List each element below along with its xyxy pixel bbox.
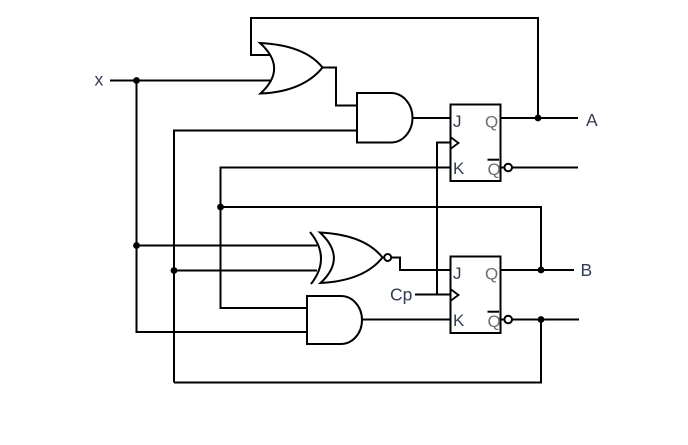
wire: AND1 output to FF1 J (410, 117, 451, 119)
flip-flop U2 Qbar overline (488, 311, 500, 313)
junction Q_B feedback (217, 204, 224, 211)
wire: XNOR output to FF2 J (383, 258, 451, 271)
wire: Q_B feedback horizontal (221, 207, 542, 270)
and-gate G4 (307, 296, 362, 344)
svg-text:J: J (453, 112, 462, 131)
wire: OR output to AND1 top input (321, 68, 357, 106)
svg-text:Q: Q (488, 312, 501, 331)
wire: AND2 output to FF2 K (360, 319, 451, 321)
wire: QbarB bottom feedback (174, 320, 541, 383)
wire: FF1 Qbar output (501, 167, 578, 169)
flip-flop U1 box (451, 105, 501, 182)
wire: FF1 clock stub (437, 143, 451, 295)
xnor-gate G3 leading curve (310, 232, 321, 284)
wire: FF1 Q output to A (500, 117, 578, 119)
junction Q_A to feedback (535, 115, 542, 122)
wire: Q_B to FF1 K input (221, 168, 452, 309)
svg-text:Q: Q (485, 265, 498, 284)
xnor-gate G3 output bubble (384, 254, 391, 261)
svg-text:K: K (453, 311, 465, 330)
or-gate G1 (260, 43, 323, 94)
svg-text:Cp: Cp (390, 285, 412, 305)
flip-flop U2 clock triangle (451, 290, 459, 301)
junction on x input (133, 77, 140, 84)
svg-text:x: x (95, 70, 104, 90)
and-gate G2 (357, 93, 413, 143)
wire: XNOR top input from x (137, 245, 318, 247)
wire: FF2 Qbar output (501, 319, 579, 321)
junction QbarB to XNOR bottom input (171, 267, 178, 274)
svg-text:A: A (586, 110, 598, 130)
flip-flop U1 clock triangle (451, 138, 459, 149)
junction x to XNOR top input (133, 242, 140, 249)
flip-flop U2 box (451, 257, 501, 334)
svg-text:K: K (453, 159, 465, 178)
xnor-gate G3 body (320, 233, 383, 284)
flip-flop U2 Qbar bubble (504, 316, 512, 324)
wire: x vertical bus (137, 81, 308, 333)
wire: QbarB bus vertical to AND1 bottom input (174, 131, 357, 383)
flip-flop U1 Qbar overline (488, 159, 500, 161)
svg-text:B: B (581, 260, 593, 280)
wire: OR top input stub (250, 54, 271, 56)
wire: Q_A feedback to OR gate top input (251, 18, 538, 118)
junction Q_B to feedback (538, 267, 545, 274)
wire: XNOR bottom input from QbarB (174, 270, 317, 272)
wire: x input to OR gate (110, 80, 271, 82)
svg-text:J: J (453, 264, 462, 283)
wire: Cp input to FF2 clock (415, 294, 451, 296)
svg-text:Q: Q (485, 113, 498, 132)
wire: FF2 Q output to B (500, 269, 574, 271)
junction QbarB to bottom feedback (538, 316, 545, 323)
flip-flop U1 Qbar bubble (504, 164, 512, 172)
svg-text:Q: Q (488, 160, 501, 179)
